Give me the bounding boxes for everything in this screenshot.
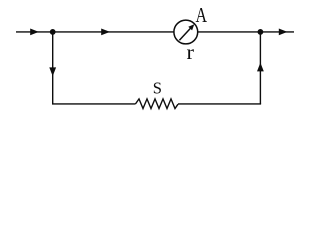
current-direction arrow (downward) on left branch bbox=[49, 67, 56, 76]
wire: right branch vertical rise to node B bbox=[259, 32, 261, 104]
svg-text:S: S bbox=[153, 78, 162, 97]
ammeter U1: circle body bbox=[174, 20, 198, 44]
ammeter needle (arrow inside meter) bbox=[179, 24, 194, 40]
current-direction arrow (upward) on right branch bbox=[257, 63, 264, 72]
current-direction arrow on input lead bbox=[30, 29, 39, 36]
wire: left branch vertical drop from node A bbox=[52, 32, 54, 104]
resistor S (zigzag) bbox=[136, 99, 179, 109]
svg-text:A: A bbox=[196, 3, 208, 27]
current-direction arrow on output lead bbox=[279, 29, 288, 36]
wire: bottom right segment from resistor to right corner bbox=[178, 103, 261, 105]
node B (right junction) bbox=[258, 29, 264, 35]
wire: left node to ammeter left terminal bbox=[53, 31, 174, 33]
wire: ammeter right terminal to right node bbox=[198, 31, 261, 33]
svg-text:r: r bbox=[187, 40, 195, 64]
node A (left junction) bbox=[50, 29, 56, 35]
wire: output lead from right node to right end bbox=[260, 31, 294, 33]
wire: input lead from left edge to left node bbox=[16, 31, 53, 33]
wire: bottom left segment to resistor bbox=[52, 103, 136, 105]
current-direction arrow between node and ammeter bbox=[101, 29, 110, 36]
